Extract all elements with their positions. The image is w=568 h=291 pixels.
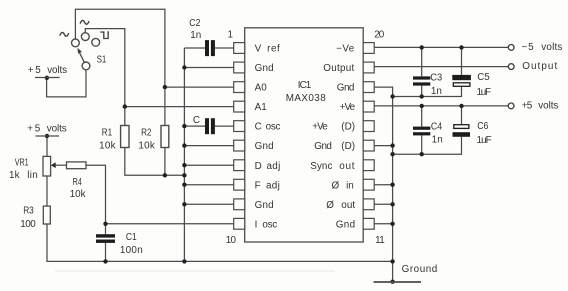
switch arm arrowhead <box>78 48 82 54</box>
capacitor C6 electrolytic <box>454 125 469 129</box>
wire VR1 bottom to R3 <box>46 176 48 206</box>
svg-text:D: D <box>255 161 262 172</box>
svg-text:10k: 10k <box>70 189 86 200</box>
wire VR1 wiper to R4 <box>55 164 66 166</box>
wire I osc row from C1 node <box>106 223 234 225</box>
svg-text:C6: C6 <box>477 121 489 132</box>
svg-text:volts: volts <box>47 124 67 135</box>
svg-text:C: C <box>255 122 262 133</box>
svg-text:out: out <box>339 161 354 172</box>
svg-text:C3: C3 <box>430 72 442 83</box>
wire C1 bottom <box>105 243 107 262</box>
svg-text:1k: 1k <box>9 170 20 181</box>
wire R1 bottom to ground bus <box>125 148 185 176</box>
svg-text:R3: R3 <box>23 205 34 216</box>
wire Gnd row3 right elbow <box>374 87 392 96</box>
svg-text:100n: 100n <box>120 245 143 256</box>
svg-text:in: in <box>346 180 354 191</box>
svg-text:volts: volts <box>47 65 67 76</box>
svg-text:R1: R1 <box>102 128 113 139</box>
capacitor C <box>205 118 215 134</box>
svg-text:1n: 1n <box>190 30 201 41</box>
wire V ref row with C2 gap <box>184 47 205 49</box>
capacitor C2 <box>205 40 215 56</box>
svg-text:Gnd: Gnd <box>336 219 355 230</box>
wire R4 right to C1 node <box>86 165 106 224</box>
svg-text:ref: ref <box>267 44 280 55</box>
svg-text:osc: osc <box>262 219 277 230</box>
IC pin boxes left <box>234 43 245 230</box>
svg-text:+Ve: +Ve <box>312 122 328 133</box>
wire Gnd row9 <box>184 203 233 205</box>
svg-text:Sync: Sync <box>310 161 332 172</box>
wire -Ve row to -5 volts terminal <box>374 46 508 48</box>
wire ground bus left <box>183 48 185 261</box>
svg-text:1n: 1n <box>432 135 443 146</box>
svg-text:Gnd: Gnd <box>255 200 274 211</box>
svg-text:A0: A0 <box>255 83 268 94</box>
svg-text:VR1: VR1 <box>15 157 29 168</box>
wire C6 top vertical <box>461 106 463 124</box>
switch S1 contacts and pole <box>72 33 100 70</box>
wire Output row to Output terminal <box>374 66 508 68</box>
wire phase in pin <box>374 184 392 186</box>
svg-text:R4: R4 <box>73 177 83 188</box>
sine symbol left <box>60 32 69 36</box>
output terminal Output <box>508 64 514 70</box>
capacitor C3 <box>413 76 430 85</box>
svg-text:11: 11 <box>375 235 385 246</box>
sine symbol middle <box>80 20 89 24</box>
output terminal -5 volts <box>508 45 514 51</box>
wire F adj row <box>184 184 233 186</box>
svg-text:20: 20 <box>374 30 384 41</box>
svg-text:I: I <box>255 219 258 230</box>
svg-text:100: 100 <box>20 219 36 230</box>
svg-text:10k: 10k <box>99 141 115 152</box>
svg-text:−Ve: −Ve <box>336 44 355 55</box>
resistor R3 <box>43 206 50 224</box>
svg-text:(D): (D) <box>341 122 355 133</box>
svg-text:adj: adj <box>267 161 281 172</box>
svg-text:Gnd: Gnd <box>337 83 355 94</box>
svg-text:1n: 1n <box>431 86 442 97</box>
scan smudge <box>55 270 335 272</box>
potentiometer VR1 <box>43 156 51 176</box>
svg-text:+5: +5 <box>27 124 41 135</box>
wire Gnd row6 <box>184 145 233 147</box>
+5 volts T-bar top <box>35 77 60 79</box>
svg-text:+5: +5 <box>522 101 533 112</box>
svg-text:Gnd: Gnd <box>314 141 332 152</box>
svg-text:V: V <box>255 44 262 55</box>
output terminal +5 volts <box>508 103 514 109</box>
wire +Ve row to +5 volts terminal <box>374 105 508 107</box>
square wave symbol <box>100 32 109 38</box>
svg-text:(D): (D) <box>341 141 355 152</box>
wire C4 verticals <box>421 106 423 127</box>
svg-text:+Ve: +Ve <box>340 102 356 113</box>
svg-text:C: C <box>193 115 200 126</box>
svg-text:adj: adj <box>266 180 280 191</box>
wire A1 row <box>125 106 234 108</box>
svg-text:S1: S1 <box>97 55 107 66</box>
svg-text:C2: C2 <box>189 18 200 29</box>
svg-text:C5: C5 <box>477 72 490 83</box>
svg-text:osc: osc <box>266 122 281 133</box>
wire gnd line under C3 C5 <box>393 87 462 97</box>
svg-text:lin: lin <box>27 170 38 181</box>
wire A0 row <box>165 86 234 88</box>
wire +5V feed to S1 pole <box>47 70 86 97</box>
svg-text:out: out <box>341 200 355 211</box>
wire R3 bottom to ground line <box>47 224 393 261</box>
wire C3 verticals <box>421 47 423 76</box>
svg-text:volts: volts <box>541 42 562 53</box>
svg-text:Gnd: Gnd <box>255 63 274 74</box>
svg-text:1uF: 1uF <box>477 135 492 146</box>
svg-text:R2: R2 <box>141 128 151 139</box>
svg-text:IC1: IC1 <box>298 80 312 91</box>
svg-text:Ø: Ø <box>332 180 340 191</box>
svg-text:Ø: Ø <box>326 200 334 211</box>
capacitor C1 <box>96 234 115 243</box>
capacitor C5 electrolytic <box>452 75 471 80</box>
wire C1 top <box>105 224 107 234</box>
wire C5 vertical <box>461 47 463 75</box>
svg-text:10: 10 <box>226 235 237 246</box>
IC pin boxes right <box>363 43 374 230</box>
svg-text:Ground: Ground <box>402 264 438 275</box>
svg-text:C1: C1 <box>126 232 137 243</box>
resistor R1 <box>121 126 129 148</box>
svg-text:F: F <box>255 180 261 191</box>
wire right ground vertical <box>392 97 394 283</box>
wire phase out pin <box>374 203 392 205</box>
capacitor C4 <box>413 127 430 136</box>
wire S1 middle contact to R1 top <box>85 29 125 126</box>
wire Gnd pin 11 <box>374 223 392 225</box>
svg-text:Output: Output <box>522 61 557 72</box>
svg-text:C4: C4 <box>431 122 443 133</box>
svg-text:Gnd: Gnd <box>255 141 274 152</box>
wire Gnd (D) pin <box>374 145 392 147</box>
ground terminal bar <box>374 281 422 283</box>
svg-text:volts: volts <box>538 101 558 112</box>
+5 volts T-bar lower <box>36 135 60 137</box>
wire C osc row with C gap <box>184 125 205 127</box>
svg-text:+5: +5 <box>28 65 42 76</box>
wire D adj row <box>184 164 233 166</box>
IC1 MAX038 body <box>245 28 364 242</box>
resistor R4 <box>67 162 87 169</box>
svg-text:10k: 10k <box>138 141 154 152</box>
wire +5V to VR1 top <box>46 136 48 156</box>
svg-text:1: 1 <box>228 30 234 41</box>
wire gnd line under C4 C6 <box>393 137 462 154</box>
resistor R2 <box>161 126 169 148</box>
svg-text:−5: −5 <box>522 42 535 53</box>
svg-text:1uF: 1uF <box>477 87 492 98</box>
wire R2 bottom <box>164 148 166 176</box>
wire Gnd row2 <box>184 67 233 69</box>
wire top from S1 left contact to R2 top <box>75 9 164 125</box>
svg-text:Output: Output <box>323 63 354 74</box>
svg-text:A1: A1 <box>255 102 268 113</box>
svg-text:MAX038: MAX038 <box>286 93 326 104</box>
